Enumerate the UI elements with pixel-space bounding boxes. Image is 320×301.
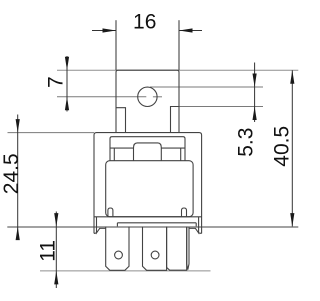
svg-text:24.5: 24.5 <box>0 153 23 194</box>
svg-text:11: 11 <box>37 240 60 262</box>
svg-text:5.3: 5.3 <box>234 128 257 157</box>
svg-text:7: 7 <box>45 76 68 88</box>
svg-text:16: 16 <box>133 11 156 34</box>
svg-text:40.5: 40.5 <box>271 126 294 167</box>
